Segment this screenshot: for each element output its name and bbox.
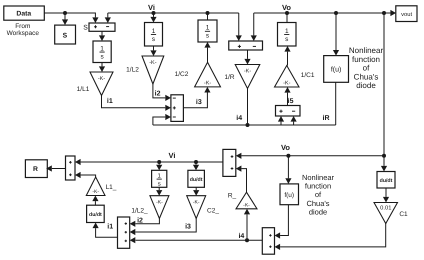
svg-text:Vo: Vo: [281, 143, 290, 152]
svg-text:du/dt: du/dt: [190, 177, 203, 183]
svg-text:Nonlinear: Nonlinear: [349, 46, 384, 55]
svg-text:i3: i3: [196, 98, 202, 106]
svg-text:C2_: C2_: [207, 208, 219, 215]
svg-text:du/dt: du/dt: [89, 212, 102, 218]
svg-text:i4: i4: [238, 232, 244, 240]
svg-text:i4: i4: [236, 114, 242, 122]
svg-text:C1: C1: [399, 211, 408, 218]
svg-text:-K-: -K-: [193, 200, 200, 206]
svg-text:1: 1: [152, 28, 156, 35]
svg-text:L1_: L1_: [106, 184, 117, 191]
svg-text:1: 1: [285, 28, 289, 35]
svg-text:i5: i5: [288, 97, 294, 105]
svg-text:1/L2: 1/L2: [126, 67, 139, 74]
svg-text:Data: Data: [16, 11, 31, 18]
svg-text:S: S: [63, 32, 68, 39]
svg-text:R_: R_: [228, 192, 237, 199]
svg-text:f(u): f(u): [331, 65, 342, 73]
svg-text:S: S: [83, 25, 88, 32]
svg-text:i2: i2: [155, 90, 161, 98]
svg-text:vout: vout: [401, 12, 412, 18]
svg-text:f(u): f(u): [284, 192, 294, 199]
svg-text:1: 1: [100, 45, 104, 52]
svg-text:R: R: [33, 166, 38, 173]
svg-text:1: 1: [206, 25, 210, 32]
svg-text:1/L1: 1/L1: [77, 86, 90, 93]
svg-text:1/C1: 1/C1: [301, 72, 315, 79]
svg-text:1/C2: 1/C2: [175, 71, 189, 78]
svg-text:function: function: [352, 55, 380, 64]
svg-text:Workspace: Workspace: [7, 30, 40, 37]
svg-text:1/R: 1/R: [224, 74, 234, 81]
svg-text:diode: diode: [356, 81, 376, 90]
svg-text:-K-: -K-: [92, 189, 99, 195]
svg-text:-K-: -K-: [156, 200, 163, 206]
svg-text:du/dt: du/dt: [380, 178, 393, 184]
svg-text:s: s: [158, 181, 161, 187]
svg-text:0.01: 0.01: [380, 205, 391, 212]
svg-text:1/L2_: 1/L2_: [131, 208, 148, 215]
svg-text:diode: diode: [309, 207, 327, 216]
svg-text:Chua's: Chua's: [354, 72, 379, 81]
svg-text:-K-: -K-: [243, 202, 250, 208]
svg-text:of: of: [363, 64, 370, 73]
svg-text:iR: iR: [323, 114, 330, 122]
svg-text:Vi: Vi: [169, 151, 176, 160]
svg-text:Vi: Vi: [148, 3, 155, 12]
svg-text:-K-: -K-: [98, 76, 106, 82]
svg-text:-K-: -K-: [244, 69, 252, 75]
svg-text:i1: i1: [107, 97, 113, 105]
svg-text:i3: i3: [185, 223, 191, 231]
svg-text:-K-: -K-: [204, 80, 212, 86]
svg-text:Vo: Vo: [282, 3, 291, 12]
svg-text:-K-: -K-: [149, 60, 157, 66]
svg-text:i1: i1: [107, 223, 113, 231]
svg-text:-K-: -K-: [283, 81, 291, 87]
